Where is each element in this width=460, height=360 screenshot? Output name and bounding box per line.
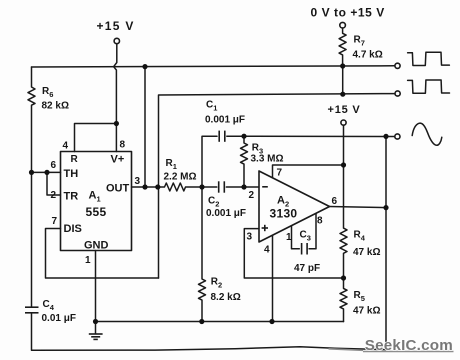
- svg-text:TR: TR: [64, 191, 79, 203]
- svg-text:V+: V+: [111, 154, 125, 166]
- svg-text:2.2 MΩ: 2.2 MΩ: [164, 171, 197, 182]
- svg-text:1: 1: [85, 255, 91, 266]
- svg-text:8: 8: [120, 140, 126, 151]
- svg-text:+15 V: +15 V: [97, 19, 135, 33]
- svg-text:DIS: DIS: [64, 223, 82, 235]
- svg-text:3: 3: [247, 232, 253, 243]
- svg-text:TH: TH: [64, 168, 79, 180]
- svg-text:4.7 kΩ: 4.7 kΩ: [353, 50, 383, 61]
- svg-text:82 kΩ: 82 kΩ: [42, 101, 69, 112]
- svg-text:6: 6: [51, 160, 57, 171]
- svg-text:1: 1: [286, 232, 292, 243]
- svg-text:3.3 MΩ: 3.3 MΩ: [251, 154, 284, 165]
- svg-text:0.01 μF: 0.01 μF: [42, 313, 76, 324]
- svg-text:3130: 3130: [270, 207, 298, 221]
- svg-text:47 pF: 47 pF: [294, 263, 320, 274]
- svg-text:+15 V: +15 V: [328, 104, 361, 116]
- svg-text:0.001 μF: 0.001 μF: [205, 115, 245, 126]
- svg-text:GND: GND: [84, 239, 109, 251]
- svg-text:47 kΩ: 47 kΩ: [353, 305, 380, 316]
- svg-text:8.2 kΩ: 8.2 kΩ: [211, 292, 241, 303]
- svg-text:R: R: [71, 154, 79, 165]
- svg-text:0 V to +15 V: 0 V to +15 V: [311, 6, 385, 20]
- svg-text:555: 555: [86, 205, 107, 219]
- svg-text:4: 4: [63, 141, 69, 152]
- svg-text:7: 7: [52, 216, 58, 227]
- svg-text:47 kΩ: 47 kΩ: [353, 247, 380, 258]
- svg-text:4: 4: [264, 244, 270, 255]
- svg-text:3: 3: [135, 176, 141, 187]
- svg-text:SeekIC.com: SeekIC.com: [365, 337, 453, 354]
- svg-text:7: 7: [277, 168, 283, 179]
- svg-text:2: 2: [249, 190, 255, 201]
- svg-text:0.001 μF: 0.001 μF: [206, 208, 246, 219]
- svg-text:6: 6: [332, 196, 338, 207]
- svg-text:2: 2: [51, 190, 57, 201]
- svg-text:8: 8: [317, 216, 323, 227]
- svg-text:OUT: OUT: [106, 183, 130, 195]
